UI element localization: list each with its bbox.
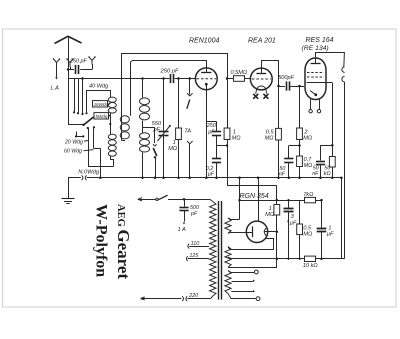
wire REA anode loop xyxy=(262,61,279,87)
capacitor 550pF variable tuning xyxy=(163,79,165,131)
wire winding C tap 1 xyxy=(232,281,253,283)
tube REA201 grid xyxy=(252,78,271,80)
svg-text:7kΩ: 7kΩ xyxy=(303,192,314,198)
svg-text:250 pF: 250 pF xyxy=(69,59,87,65)
svg-text:1: 1 xyxy=(328,225,331,231)
wire coil A mid xyxy=(110,113,112,134)
wire supply line xyxy=(240,200,305,202)
resistor 0.5 Mohm coupling xyxy=(227,78,234,80)
capacitor 250pF cathode xyxy=(216,122,218,132)
tube RES164 control grid xyxy=(307,76,324,78)
svg-text:0,5MΩ: 0,5MΩ xyxy=(231,70,248,76)
svg-text:250 pF: 250 pF xyxy=(160,69,180,75)
wire negative rail xyxy=(232,258,305,260)
transformer secondary HT winding xyxy=(225,218,231,233)
tube RES164 screen grid xyxy=(307,72,324,74)
wire rect anode out xyxy=(268,231,277,233)
wire bus to rect xyxy=(258,178,260,221)
wire chassis bus xyxy=(87,177,342,179)
capacitor 50nF bias xyxy=(320,145,322,160)
wire bias link xyxy=(321,145,333,147)
tube RES164 filament pins xyxy=(310,99,312,109)
capacitor 500pF coupling xyxy=(279,86,285,88)
tube RGN354 anode xyxy=(264,227,267,236)
transformer secondary winding C xyxy=(225,271,231,294)
resistor 10 kohm xyxy=(305,256,316,261)
connector mains lower jack xyxy=(182,296,187,301)
resistor 1 Mohm bleeder xyxy=(274,205,280,216)
switch waveband xyxy=(154,127,156,143)
svg-text:60 Wdg: 60 Wdg xyxy=(64,149,82,155)
node anode junction xyxy=(226,77,229,80)
tube REN1004 grid xyxy=(197,78,217,80)
wire HT winding lead xyxy=(228,218,240,220)
transformer core xyxy=(218,201,220,300)
capacitor 250pF grid series xyxy=(170,74,172,83)
wire REN cathode down xyxy=(206,90,208,178)
resistor 7 kohm xyxy=(305,197,316,202)
tube REA201 envelope xyxy=(250,68,272,90)
svg-text:MΩ: MΩ xyxy=(303,232,313,238)
wire tap stub 1 xyxy=(74,79,76,112)
wire coil B top lead xyxy=(142,79,144,98)
wire rail B bottom link xyxy=(231,259,277,268)
terminal antenna mid (Y socket) xyxy=(67,59,73,67)
wire HT winding bottom xyxy=(228,232,246,235)
resistor 50 kohm bias xyxy=(332,145,334,156)
inductor reaction coil xyxy=(120,116,129,123)
wire coil B tap stub xyxy=(143,127,155,129)
wire chassis bus left xyxy=(68,177,81,179)
svg-text:pF: pF xyxy=(207,129,215,135)
tube REN1004 cathode xyxy=(205,83,208,86)
svg-text:500pF: 500pF xyxy=(278,75,294,81)
svg-text:125: 125 xyxy=(189,253,199,259)
switch mains xyxy=(156,198,158,200)
switch lower contact bar xyxy=(76,136,83,138)
wire antenna mast down xyxy=(68,70,70,125)
resistor 1 Mohm grid leak xyxy=(178,79,180,129)
wire link cath caps to load xyxy=(217,145,228,147)
wire RES anode to output xyxy=(316,53,345,68)
node bus tap xyxy=(238,177,241,180)
svg-text:REN1004: REN1004 xyxy=(189,38,219,45)
svg-text:W-Polyfon: W-Polyfon xyxy=(93,204,110,277)
wire mains lead lower xyxy=(141,298,182,300)
wire mains lead upper xyxy=(138,199,156,201)
capacitor 1uF xyxy=(321,200,323,228)
tube RGN354 filament xyxy=(252,226,254,237)
svg-text:MΩ: MΩ xyxy=(232,136,242,142)
svg-text:5Wdg: 5Wdg xyxy=(95,114,107,119)
svg-text:nF: nF xyxy=(279,172,286,178)
wire speaker line down xyxy=(344,82,346,259)
wire coil B bottom xyxy=(142,152,144,178)
svg-text:MΩ: MΩ xyxy=(304,163,313,169)
svg-text:kΩ: kΩ xyxy=(324,171,331,177)
wire coil A bottom jog xyxy=(111,156,114,166)
resistor 1 Mohm anode load xyxy=(224,128,230,140)
wire anode rail outer xyxy=(122,54,228,141)
capacitor 0.2uF xyxy=(212,158,221,160)
wire link 2M to 50nF xyxy=(289,145,300,147)
switch antenna tap selector arm xyxy=(68,124,84,126)
capacitor 50nF grid xyxy=(288,146,290,159)
svg-text:nF: nF xyxy=(312,171,319,177)
node coil B top xyxy=(141,77,144,80)
svg-text:µF: µF xyxy=(290,220,297,226)
svg-text:MΩ: MΩ xyxy=(265,136,275,142)
svg-text:1 A: 1 A xyxy=(178,227,186,233)
tube RES164 grid rail xyxy=(307,82,327,84)
node rect top xyxy=(257,177,260,180)
connector tap 110 xyxy=(188,244,189,249)
svg-text:µF: µF xyxy=(208,172,215,178)
inductor coil B lower section xyxy=(140,133,150,139)
svg-text:MΩ: MΩ xyxy=(168,146,178,152)
wire winding B bottom xyxy=(228,266,231,268)
wire winding B top xyxy=(228,247,230,250)
connector tap 125 xyxy=(186,256,187,261)
svg-text:REA 201: REA 201 xyxy=(248,38,276,45)
svg-text:RGN 354: RGN 354 xyxy=(240,193,269,200)
wire link to bus drop xyxy=(88,166,113,168)
svg-text:pF: pF xyxy=(190,211,198,217)
tube REA201 anode xyxy=(256,73,266,75)
resistor 2 Mohm xyxy=(298,85,301,88)
node antenna junction xyxy=(67,68,70,71)
wire right edge drop xyxy=(341,178,343,259)
wire tap stub 3 xyxy=(82,79,84,114)
terminal antenna right (Y socket) xyxy=(89,57,95,65)
wire winding B tap xyxy=(228,257,232,259)
terminal speaker lower xyxy=(342,76,345,82)
capacitor 250pF antenna series xyxy=(68,69,74,71)
node grid-coil tap a xyxy=(81,77,84,80)
connector mains jack xyxy=(82,175,87,180)
node supply junction xyxy=(276,199,279,202)
inductor coil B upper section xyxy=(140,98,150,105)
antenna xyxy=(55,36,82,43)
wire winding C tap 2 xyxy=(232,291,253,293)
svg-text:16Wdg: 16Wdg xyxy=(94,102,109,107)
tube RES164 envelope xyxy=(305,58,326,100)
svg-text:(RE 134): (RE 134) xyxy=(302,45,329,52)
wire tap 220 xyxy=(187,298,210,300)
resistor 0.5 Mohm PSU xyxy=(299,200,301,224)
wire HT drop xyxy=(239,186,241,220)
node REA anode node xyxy=(277,85,280,88)
svg-text:250: 250 xyxy=(206,123,216,129)
wire coil B mid xyxy=(142,121,144,133)
tube REN1004 anode xyxy=(201,72,211,74)
wire B+ jog xyxy=(227,185,277,187)
wire PSU column xyxy=(276,215,278,259)
label box 5 Wdg xyxy=(94,113,109,119)
transformer primary winding xyxy=(210,199,213,201)
inductor antenna coil upper section xyxy=(108,97,116,102)
ground xyxy=(68,178,70,199)
svg-text:550: 550 xyxy=(152,121,162,127)
wire PSU column top xyxy=(276,186,278,205)
svg-text:40 Wdg: 40 Wdg xyxy=(89,84,109,90)
wire grid line right xyxy=(175,78,196,80)
wire bus to HT xyxy=(239,178,241,186)
transformer secondary winding B xyxy=(225,247,231,268)
label box 16 Wdg xyxy=(93,101,108,107)
tube REA201 filament pins X marks xyxy=(256,90,257,94)
wire winding C bottom xyxy=(228,294,256,299)
tube REA201 filament xyxy=(256,86,266,90)
svg-text:10 kΩ: 10 kΩ xyxy=(303,263,319,269)
terminal speaker upper xyxy=(342,67,345,73)
resistor 0.7 Mohm xyxy=(299,146,301,157)
wire coil A top link xyxy=(87,91,111,113)
wire rect filament return xyxy=(229,239,274,250)
wire drop to bus xyxy=(93,126,95,128)
svg-text:µF: µF xyxy=(327,232,334,238)
tube RES164 anode xyxy=(311,63,321,65)
svg-text:L.A: L.A xyxy=(51,86,60,92)
svg-text:TA: TA xyxy=(184,129,191,135)
svg-text:MΩ: MΩ xyxy=(303,136,313,142)
wire coil A lower-left tap xyxy=(87,127,89,129)
wire cathode link xyxy=(206,121,216,123)
wire grid line left xyxy=(68,78,170,80)
tube RES164 cathode xyxy=(310,91,316,95)
wire anode rail inner xyxy=(131,61,207,116)
switch TA pickup xyxy=(189,79,191,95)
node TA tap xyxy=(189,77,192,80)
wire RES cathode down xyxy=(326,82,332,84)
svg-text:N.0Wdg: N.0Wdg xyxy=(78,169,100,175)
tube REN1004 envelope xyxy=(195,68,217,90)
arrow to earth LA xyxy=(56,67,58,78)
capacitor 500pF mains xyxy=(183,198,186,201)
wire winding C top xyxy=(228,271,254,273)
svg-text:20 Wdg: 20 Wdg xyxy=(64,139,83,145)
resistor 0.5 Mohm REA load xyxy=(278,86,280,128)
tube RGN354 envelope xyxy=(246,221,267,242)
capacitor 3uF xyxy=(287,199,289,201)
svg-text:pF: pF xyxy=(153,127,161,133)
node supply right xyxy=(320,199,323,202)
svg-text:110: 110 xyxy=(191,241,200,247)
node tuning cap top xyxy=(162,77,165,80)
svg-text:MΩ: MΩ xyxy=(265,212,275,218)
terminal LA (Y socket) xyxy=(54,59,60,67)
wire tap stub 2 xyxy=(78,79,80,113)
inductor antenna coil lower section xyxy=(108,134,116,139)
node grid leak top xyxy=(177,77,180,80)
svg-text:RES 164: RES 164 xyxy=(306,37,334,44)
